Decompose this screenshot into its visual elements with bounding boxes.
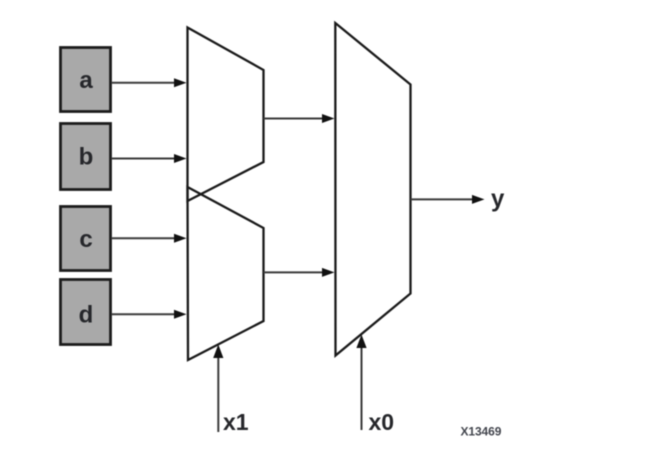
input box c bbox=[61, 207, 111, 271]
svg-text:x1: x1 bbox=[223, 409, 249, 435]
control input x0 (select for mux M3) bbox=[356, 335, 366, 431]
wire mux M2 output to mux M3 bbox=[264, 268, 335, 277]
mux M2 (2:1, inputs c d) bbox=[188, 187, 264, 360]
wire d to mux M2 bbox=[112, 310, 187, 319]
svg-text:a: a bbox=[79, 67, 93, 94]
svg-text:c: c bbox=[79, 226, 92, 253]
wire a to mux M1 bbox=[112, 78, 187, 87]
wire c to mux M2 bbox=[112, 234, 187, 243]
control input x1 (select for mux M2) bbox=[213, 345, 223, 433]
mux M1 (2:1, inputs a b) bbox=[188, 28, 264, 202]
svg-text:d: d bbox=[79, 302, 94, 329]
svg-text:X13469: X13469 bbox=[461, 425, 502, 439]
input box b bbox=[61, 124, 111, 190]
wire mux M1 output to mux M3 bbox=[264, 114, 335, 123]
mux M3 (2:1 output stage) bbox=[335, 23, 410, 356]
input box a bbox=[61, 48, 111, 112]
svg-text:x0: x0 bbox=[369, 409, 395, 435]
output wire y bbox=[411, 195, 485, 204]
svg-text:y: y bbox=[491, 186, 505, 213]
input box d bbox=[61, 280, 111, 345]
svg-text:b: b bbox=[79, 144, 94, 171]
wire b to mux M1 bbox=[112, 154, 187, 163]
